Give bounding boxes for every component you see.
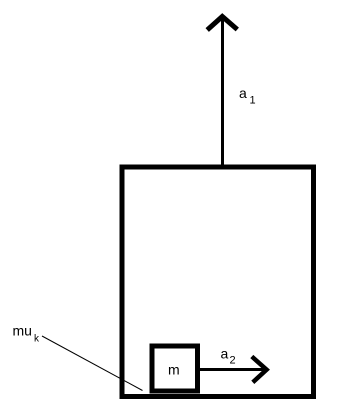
arrowhead a2 <box>252 357 267 383</box>
arrowhead a1 <box>207 17 237 31</box>
svg-text:a: a <box>239 85 247 101</box>
svg-text:1: 1 <box>250 95 256 107</box>
svg-text:a: a <box>221 346 229 362</box>
svg-text:mu: mu <box>13 323 32 339</box>
small box m <box>152 346 198 391</box>
svg-text:2: 2 <box>230 355 236 367</box>
wire: vertical arrow shaft a1 <box>221 17 224 169</box>
svg-text:m: m <box>168 362 180 378</box>
wire: leader line from mu_k to box bottom <box>42 336 143 391</box>
big box (elevator) <box>122 167 314 397</box>
wire: horizontal arrow shaft a2 <box>197 368 265 371</box>
